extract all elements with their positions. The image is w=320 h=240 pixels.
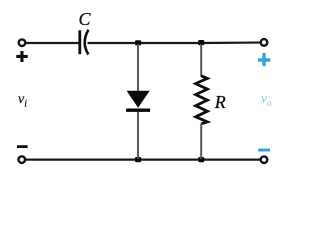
input polarity minus xyxy=(17,145,28,148)
resistor R (zigzag) xyxy=(196,76,208,124)
label v_o (output voltage, blue) xyxy=(261,91,272,109)
wire bottom-right (node D to output - terminal) xyxy=(201,159,260,161)
diode D (anode top, cathode bottom) xyxy=(126,91,150,112)
wire top-right (node B to output + terminal) xyxy=(201,41,260,44)
input terminal top-left xyxy=(19,39,26,46)
node D (bottom junction of resistor branch) xyxy=(198,157,204,162)
node B (top junction of resistor branch) xyxy=(198,40,204,45)
input terminal bottom-left xyxy=(19,156,26,163)
capacitor C xyxy=(80,30,89,55)
label v_i (input voltage) xyxy=(18,92,27,110)
wire diode cathode lead xyxy=(137,112,139,159)
wire diode anode lead xyxy=(137,44,139,91)
output terminal top-right xyxy=(261,39,268,46)
wire bottom-left (input - terminal to node C) xyxy=(25,159,138,161)
node A (top junction of diode branch) xyxy=(135,40,141,45)
input polarity plus xyxy=(16,51,27,62)
node C (bottom junction of diode branch) xyxy=(135,157,141,162)
label C xyxy=(79,9,92,29)
wire top-left (input + terminal to capacitor) xyxy=(26,42,80,44)
wire resistor bottom lead xyxy=(200,124,202,160)
label R xyxy=(214,92,226,112)
svg-text:vi: vi xyxy=(18,92,27,110)
output terminal bottom-right xyxy=(261,156,268,163)
wire resistor top lead xyxy=(200,44,202,77)
wire top (node A to node B) xyxy=(138,42,201,44)
output polarity minus (blue) xyxy=(258,149,270,152)
svg-text:C: C xyxy=(79,9,92,29)
svg-text:vo: vo xyxy=(261,91,272,109)
wire bottom (node C to node D) xyxy=(138,159,201,161)
wire top-middle (capacitor to node A) xyxy=(88,42,139,44)
svg-text:R: R xyxy=(214,92,226,112)
output polarity plus (blue) xyxy=(258,53,270,66)
